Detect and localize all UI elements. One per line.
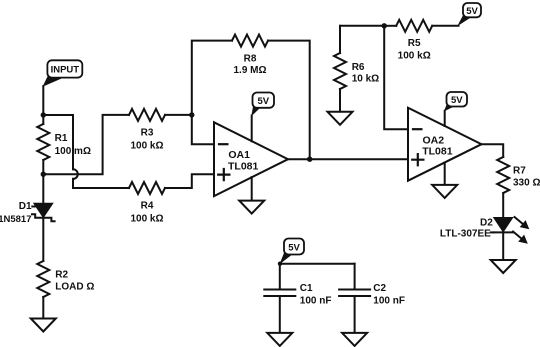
svg-text:10 kΩ: 10 kΩ [352, 74, 379, 85]
svg-text:R5: R5 [408, 38, 421, 49]
svg-text:LTL-307EE: LTL-307EE [440, 228, 491, 239]
wire OA1 output to OA2 plus input [288, 158, 408, 160]
svg-text:5V: 5V [288, 243, 300, 254]
wire 5V rail to C1/C2 [280, 263, 355, 265]
capacitor C2 [354, 264, 356, 290]
svg-text:R2: R2 [55, 269, 68, 280]
svg-text:5V: 5V [466, 6, 478, 17]
wire junction to R5 [384, 25, 396, 27]
ground under C1 [267, 333, 292, 346]
ground under D2 [491, 260, 516, 273]
svg-text:100 nF: 100 nF [373, 295, 405, 306]
wire OA2 output to R7 [482, 144, 504, 157]
wire R2 to ground [42, 297, 44, 319]
junction R5/R6 divider [382, 23, 387, 28]
junction OA1 output/R8 [307, 157, 312, 162]
diode D1 anode wire [42, 174, 44, 204]
svg-text:1N5817: 1N5817 [0, 214, 32, 225]
5V flag (top right) [457, 14, 471, 27]
svg-text:OA2: OA2 [423, 134, 445, 146]
junction R3/R8/OA1- [189, 112, 194, 117]
svg-text:C2: C2 [373, 283, 386, 294]
OA2 5V supply wire [444, 111, 446, 126]
resistor R6 [339, 26, 341, 53]
svg-text:100 kΩ: 100 kΩ [398, 50, 431, 61]
wire divider junction to OA2 minus input [384, 26, 408, 129]
wire R3 to junction [165, 114, 192, 116]
svg-text:C1: C1 [300, 283, 313, 294]
svg-text:100 mΩ: 100 mΩ [55, 146, 91, 157]
svg-text:330 Ω: 330 Ω [513, 178, 540, 189]
ground under OA2 [432, 185, 457, 198]
diode D1 [35, 204, 52, 217]
wire R5 to 5V [432, 25, 458, 27]
resistor R2 [37, 261, 49, 297]
svg-text:OA1: OA1 [228, 149, 250, 161]
op-amp OA1 [214, 122, 288, 196]
svg-text:TL081: TL081 [228, 160, 259, 172]
svg-text:R8: R8 [244, 53, 257, 64]
svg-text:100 kΩ: 100 kΩ [130, 213, 163, 224]
node B junction [41, 172, 46, 177]
ground under R2 [31, 319, 56, 332]
wire D1 to R2 [42, 218, 44, 261]
node A junction [41, 112, 46, 117]
OA2 negative supply stub [444, 163, 446, 185]
ground under C2 [342, 333, 367, 346]
svg-text:R4: R4 [141, 201, 154, 212]
svg-text:R1: R1 [55, 133, 68, 144]
resistor R3 [129, 109, 165, 121]
wire R7 to D2 [502, 193, 504, 218]
wire hop [73, 169, 78, 179]
wire feedback loop left vertical [192, 41, 232, 115]
resistor R5 [396, 20, 432, 32]
svg-text:INPUT: INPUT [51, 65, 80, 76]
5V flag (OA2) [444, 103, 455, 112]
wire INPUT to node A [42, 86, 44, 115]
5V flag (bottom, caps) [280, 251, 293, 265]
LED D2 [495, 218, 512, 231]
svg-text:5V: 5V [451, 95, 463, 106]
svg-text:TL081: TL081 [422, 146, 453, 158]
wire feedback loop right vertical to output [268, 41, 310, 160]
ground under R6 [328, 112, 353, 125]
D2 light arrow 2 [513, 232, 522, 240]
resistor R8 [232, 35, 268, 47]
capacitor C1 [279, 264, 281, 290]
svg-text:R7: R7 [513, 166, 526, 177]
svg-text:5V: 5V [257, 96, 269, 107]
resistor R7 [497, 157, 509, 193]
D1 label tick [32, 206, 35, 208]
wire R6 top to divider junction [340, 25, 384, 27]
svg-text:100 nF: 100 nF [300, 295, 332, 306]
D2 light arrow 1 [515, 217, 524, 225]
svg-text:R6: R6 [352, 62, 365, 73]
5V flag (OA1) [251, 104, 261, 117]
OA1 5V supply wire [251, 116, 253, 142]
OA1 negative supply stub [251, 177, 253, 201]
op-amp OA2 [408, 108, 482, 181]
ground under OA1 [239, 201, 264, 214]
wire node B to R3 [43, 115, 129, 174]
svg-text:D2: D2 [480, 217, 493, 228]
wire D2 to ground [502, 232, 504, 260]
junction 5V rail corner [278, 262, 282, 266]
wire R4 to OA1 plus input [165, 174, 214, 188]
INPUT flag [43, 76, 66, 87]
svg-text:R3: R3 [141, 128, 154, 139]
wire junction to OA1 minus input [192, 115, 214, 144]
resistor R4 [129, 182, 165, 194]
svg-text:100 kΩ: 100 kΩ [130, 140, 163, 151]
D2 label tick [491, 231, 494, 233]
svg-text:D1: D1 [19, 201, 32, 212]
wire node A to R4 (with hop over node-B wire) [43, 115, 73, 169]
wire hop bottom to R4 [73, 179, 129, 188]
svg-text:1.9 MΩ: 1.9 MΩ [233, 65, 266, 76]
resistor R1 [42, 115, 44, 124]
svg-text:LOAD Ω: LOAD Ω [55, 282, 94, 293]
